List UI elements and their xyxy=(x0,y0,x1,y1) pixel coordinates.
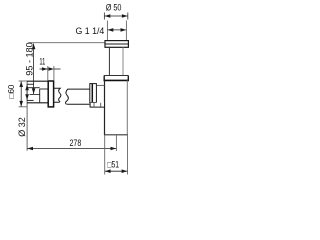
dimension Ø50 line with arrows xyxy=(105,15,128,17)
body cup bottom xyxy=(104,134,128,136)
collar step top xyxy=(40,88,48,90)
wall line doubling as Ø32 dimension line xyxy=(26,81,28,151)
nut at body xyxy=(90,84,97,103)
tailpiece pipe right wall xyxy=(122,47,124,75)
inlet boss inner line 2 xyxy=(100,103,102,107)
top flange outline xyxy=(105,41,128,48)
horizontal tube top line xyxy=(67,88,89,90)
dimension 11 arrow right xyxy=(54,68,60,70)
reference line sink level xyxy=(29,42,106,44)
wall pipe bottom line xyxy=(30,94,40,96)
svg-text:□51: □51 xyxy=(107,159,119,169)
body extension line left below xyxy=(104,135,106,175)
dimension G11/4 extension line right xyxy=(125,21,127,41)
wall sleeve top edge xyxy=(27,80,48,82)
inlet boss below nut xyxy=(90,103,104,107)
body extension line right below xyxy=(127,135,129,175)
wall pipe top line xyxy=(27,87,40,89)
dimension G11/4 extension line left xyxy=(106,21,108,41)
dimension 278 line with arrows xyxy=(27,148,116,150)
dimension square60 extension line bottom xyxy=(19,106,27,108)
wall sleeve inner top line xyxy=(27,83,34,85)
svg-text:Ø 50: Ø 50 xyxy=(106,3,122,14)
svg-text:Ø 32: Ø 32 xyxy=(17,117,27,137)
body cup left wall xyxy=(104,80,106,135)
dimension square60 line with arrows xyxy=(20,81,22,106)
svg-text:11: 11 xyxy=(39,57,45,68)
dimension 11 extension line right xyxy=(53,66,55,81)
dimension square60 extension line top xyxy=(19,80,27,82)
body top rim xyxy=(104,75,128,77)
dimension 11 arrow left xyxy=(40,68,48,70)
dimension 11 extension line left xyxy=(47,66,49,81)
dimension G11/4 line with arrows xyxy=(108,29,127,31)
tailpiece pipe left wall xyxy=(108,47,110,75)
Ø32 arrow up at pipe top xyxy=(26,85,28,93)
dimension 95-180 line with arrows xyxy=(33,44,35,95)
tube stub nut to body xyxy=(97,84,105,86)
collar step vertical xyxy=(39,89,41,103)
dimension Ø50 tick left xyxy=(103,13,105,20)
svg-text:278: 278 xyxy=(70,138,82,148)
top flange inner line xyxy=(105,43,128,45)
Ø32 arrow down at pipe bottom xyxy=(26,92,28,100)
wall sleeve inner bottom line xyxy=(27,99,34,101)
socket piece with break edge xyxy=(54,88,61,102)
centerline extension below body xyxy=(115,135,117,151)
svg-text:□60: □60 xyxy=(7,84,16,98)
escutcheon plate xyxy=(48,81,53,107)
tube break wavy left edge xyxy=(65,89,68,104)
inlet boss inner line 1 xyxy=(93,103,95,107)
dimension square51 line with arrows xyxy=(105,170,127,172)
horizontal tube bottom line xyxy=(67,103,90,105)
svg-text:G 1 1/4: G 1 1/4 xyxy=(76,26,105,36)
body cup right wall xyxy=(126,80,128,135)
nut inner line xyxy=(91,84,93,103)
dimension Ø50 tick right xyxy=(127,13,129,20)
svg-text:95 - 180: 95 - 180 xyxy=(24,42,34,75)
wall sleeve bottom edge xyxy=(27,102,48,104)
